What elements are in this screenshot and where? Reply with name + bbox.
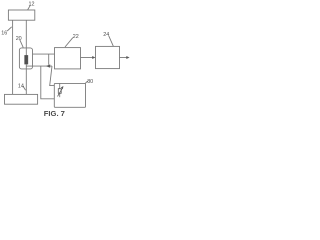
leader line for label 12 bbox=[28, 5, 31, 10]
output wire from box 24 bbox=[120, 57, 127, 59]
svg-text:24: 24 bbox=[103, 32, 109, 38]
wire 16 (left vertical, box 12 to box 14) bbox=[12, 20, 14, 94]
leader line for label 14 bbox=[23, 86, 26, 90]
arrowhead of variable resistor arrow in box 80 bbox=[61, 86, 64, 89]
variable resistor body in box 80 bbox=[58, 89, 61, 94]
leader line for label 24 bbox=[109, 36, 114, 46]
svg-text:20: 20 bbox=[16, 36, 22, 42]
wire in box 80 below variable resistor bbox=[59, 93, 61, 97]
arrowhead into box 24 bbox=[92, 56, 95, 59]
leader line for label 20 bbox=[20, 40, 23, 48]
wire down to box 80 lower input bbox=[41, 66, 55, 99]
box 14 bbox=[5, 94, 38, 104]
wire down to box 80 upper input bbox=[50, 66, 55, 86]
svg-text:22: 22 bbox=[73, 34, 79, 40]
svg-text:12: 12 bbox=[29, 1, 35, 7]
arrowhead pointing left at junction node on lower wire bbox=[46, 64, 50, 67]
wire from box 12 down to sensor box 20 bbox=[25, 20, 27, 48]
lower wire from node in box 20 to corner bbox=[26, 65, 52, 67]
leader line for label 22 bbox=[65, 38, 73, 47]
wire box 22 to box 24 bbox=[81, 57, 94, 59]
svg-text:80: 80 bbox=[87, 79, 93, 85]
svg-text:16: 16 bbox=[1, 30, 7, 36]
box 24 bbox=[96, 46, 120, 68]
wire in box 80 above variable resistor bbox=[59, 83, 61, 88]
resistor R in box 20 bbox=[25, 55, 28, 64]
arrowhead of output arrow after box 24 bbox=[126, 56, 129, 59]
box 22 bbox=[55, 48, 81, 69]
leader line for label 80 bbox=[85, 81, 88, 84]
wire below resistor through box 20 bottom to box 14 bbox=[25, 64, 27, 94]
box 80 bbox=[54, 83, 85, 107]
leader line for label 16 bbox=[7, 27, 12, 31]
vertical branch from upper wire to arrow junction bbox=[48, 54, 50, 65]
box 20 (sensor, rounded) bbox=[19, 48, 32, 69]
box 12 bbox=[8, 10, 34, 20]
upper wire box 20 to box 22 bbox=[33, 53, 55, 55]
variable resistor arrow shaft bbox=[58, 88, 63, 96]
svg-text:14: 14 bbox=[18, 84, 24, 90]
wire inside box 20 above resistor bbox=[25, 48, 27, 56]
svg-text:FIG. 7: FIG. 7 bbox=[44, 109, 65, 118]
